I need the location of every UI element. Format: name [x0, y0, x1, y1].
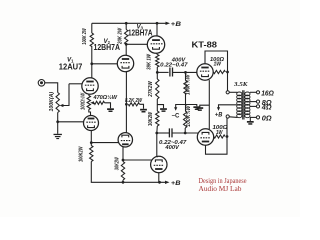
wire V1 grid	[69, 83, 82, 85]
triode V3 upper	[147, 36, 164, 53]
wire drive to C2	[157, 132, 169, 134]
svg-text:0.22~0.47: 0.22~0.47	[160, 62, 188, 68]
wire V2 cathode bus	[125, 72, 127, 133]
wire pot bottom	[57, 113, 59, 134]
node V2 lower plate / V3 lower grid	[122, 159, 125, 162]
terminal 4 ohm	[256, 105, 259, 108]
wire terminal to primary bottom	[229, 116, 237, 119]
svg-text:30K2W: 30K2W	[115, 156, 121, 170]
wire C2 to KT88-2 grid	[172, 132, 199, 134]
wire 30K to node lower	[156, 126, 159, 157]
wire V1 upper cathode	[88, 94, 90, 95]
wire 39K to node	[156, 67, 158, 79]
wire to V3 lower grid	[123, 159, 152, 161]
terminal 8 ohm	[256, 100, 259, 103]
resistor 30K 2W bottom	[121, 162, 124, 181]
resistor 27K 2W	[156, 79, 159, 99]
wire V3 plate	[156, 23, 158, 36]
wire V1 lower cathode	[90, 131, 92, 146]
node V2 plate / V3 grid	[125, 43, 128, 46]
node drive lower	[155, 132, 158, 135]
wire 470R to ground	[105, 103, 111, 109]
svg-text:+B: +B	[215, 113, 223, 119]
node drive upper	[156, 71, 159, 74]
svg-text:−C: −C	[172, 113, 181, 119]
ground 470R	[107, 108, 114, 110]
wire KT88-2 plate loop	[206, 118, 228, 154]
wire center tap	[219, 105, 237, 108]
capacitor C1 0.22-0.47 400V	[170, 68, 173, 77]
svg-text:KT-88: KT-88	[192, 39, 218, 49]
wire 27K to 30K	[156, 99, 158, 111]
wire secondary ground	[249, 117, 251, 121]
svg-text:30K2W: 30K2W	[148, 111, 154, 126]
ground secondary	[247, 121, 254, 123]
svg-text:12BH7A: 12BH7A	[94, 43, 121, 52]
svg-text:100K½W: 100K½W	[185, 105, 192, 127]
wire top +B rail	[92, 22, 167, 24]
input jack J1	[38, 80, 45, 87]
wire terminal to primary	[229, 91, 237, 93]
wire grid corner from pot wiper	[61, 84, 69, 106]
svg-text:16Ω: 16Ω	[261, 89, 274, 98]
ground 8.2K	[140, 109, 147, 111]
wire 8.2K to ground	[140, 104, 144, 109]
resistor 100K 2W plate V1	[90, 33, 93, 47]
svg-text:+B: +B	[171, 21, 181, 28]
resistor 39K 1W	[156, 55, 159, 68]
tube KT88 lower	[197, 129, 213, 145]
wire to V2 lower grid	[91, 142, 119, 144]
wire V1 plate to V2 grid	[92, 63, 118, 65]
wire bias node	[185, 94, 187, 112]
wire 20K to V2 plate	[125, 44, 127, 55]
svg-text:27K2W: 27K2W	[148, 80, 154, 97]
node plate/100R junction	[226, 71, 229, 74]
svg-text:1W: 1W	[216, 130, 223, 136]
svg-text:100K(A): 100K(A)	[49, 92, 55, 112]
arrow +B top	[166, 22, 171, 25]
arrowhead pot wiper	[60, 104, 64, 107]
node plate2/100R junction	[226, 135, 229, 138]
node V1 plate / V2 grid	[90, 62, 93, 65]
arrow +B bottom	[165, 181, 170, 184]
svg-text:470Ω½W: 470Ω½W	[93, 94, 118, 101]
wire grid node to 100K	[185, 72, 187, 80]
resistor 30K 2W mid	[156, 111, 159, 126]
ground bias	[193, 106, 200, 108]
resistor 100 ohm 1/2W cathode pot V1	[87, 96, 90, 110]
capacitor C2 0.22-0.47 400V	[169, 128, 172, 137]
wire tap 8	[250, 101, 256, 103]
svg-text:100K 2W: 100K 2W	[82, 28, 88, 45]
wire cathode gnd stub	[200, 105, 210, 107]
svg-text:8.2K 2W: 8.2K 2W	[125, 98, 143, 104]
transformer secondary winding	[245, 92, 250, 96]
svg-text:+B: +B	[171, 180, 181, 187]
wire V3 lower plate	[158, 173, 160, 183]
arrowhead +B center tap	[217, 107, 220, 111]
junction bottom rail / V3 lower plate	[158, 181, 161, 184]
ground KT88 cathodes	[196, 107, 203, 109]
svg-text:12AU7: 12AU7	[59, 62, 83, 72]
junction top rail / V3 plate	[156, 22, 159, 25]
wire bias gnd stub	[186, 105, 197, 107]
junction bottom rail / 30K	[122, 181, 125, 184]
ground pot	[54, 134, 62, 135]
wire KT88-1 plate loop	[205, 51, 228, 91]
resistor 470 ohm 1/2W	[94, 101, 105, 104]
tube KT88 upper	[197, 64, 213, 80]
wire V2 plate to V3 grid	[126, 43, 147, 45]
node KT88-1 grid R	[184, 71, 187, 74]
resistor 100K 1/2W lower	[184, 111, 187, 128]
node pot bottom / V1 lower grid	[56, 120, 59, 123]
wire KT88-1 cathode	[208, 80, 210, 129]
wire tail to bottom rail	[91, 162, 166, 183]
arrowhead cathode pot wiper	[90, 101, 94, 104]
svg-text:100K2W: 100K2W	[78, 146, 84, 162]
svg-text:1W: 1W	[214, 61, 222, 67]
resistor 8.2K 2W	[128, 103, 139, 106]
terminal 16 ohm	[256, 91, 259, 94]
svg-text:100K½W: 100K½W	[185, 74, 192, 95]
node V1 lower cathode / V2 lower grid	[90, 141, 93, 144]
resistor 100R 1W upper g2	[213, 70, 225, 73]
wire V2 lower plate	[122, 147, 124, 162]
terminal primary bottom	[226, 115, 229, 118]
arrowhead -C	[174, 107, 177, 111]
triode V2 lower	[118, 133, 132, 147]
wire 100K lower to grid wire	[184, 128, 186, 133]
resistor 100R 1W lower g2	[214, 135, 225, 138]
wire drive to C1	[157, 71, 168, 73]
wire tap 0	[250, 116, 256, 118]
triode V3 lower	[151, 156, 167, 172]
wire rail to 20K	[125, 23, 127, 29]
wire pot bottom to V1 lower plate	[89, 110, 91, 116]
wire -C feed	[176, 105, 186, 108]
wire center ground stub	[157, 105, 163, 109]
triode V2 upper	[117, 55, 133, 71]
terminal 0 ohm	[256, 116, 259, 119]
transformer primary winding	[237, 92, 242, 96]
wire plate V1 upper	[91, 46, 93, 78]
wire V1 lower grid	[58, 121, 84, 123]
wire tap 4	[250, 105, 256, 107]
wire V3 cathode	[156, 53, 159, 54]
transformer core	[243, 90, 244, 119]
wire jack to volume pot	[45, 83, 58, 93]
node KT88-2 grid R	[184, 132, 187, 135]
wire C1 to KT88 grid	[173, 71, 197, 73]
svg-text:12BH7A: 12BH7A	[128, 29, 153, 38]
node cathode bus 8.2K	[125, 103, 128, 106]
wire tap 16	[250, 91, 256, 93]
svg-text:39K 1W: 39K 1W	[147, 53, 153, 70]
resistor 20K 2W	[125, 30, 128, 45]
triode V1 upper	[82, 78, 98, 94]
potentiometer 100K(A)	[56, 93, 59, 113]
svg-text:Audio MJ Lab: Audio MJ Lab	[199, 184, 242, 193]
terminal primary top	[226, 91, 229, 94]
resistor 100K 2W tail	[90, 146, 93, 162]
svg-text:20K 2W: 20K 2W	[117, 27, 123, 45]
svg-text:400V: 400V	[164, 145, 180, 151]
svg-text:0Ω: 0Ω	[262, 114, 272, 123]
ground center chain	[160, 108, 167, 110]
wire rail to 100K	[91, 23, 93, 33]
svg-text:4Ω: 4Ω	[261, 103, 272, 112]
svg-text:100Ω½W: 100Ω½W	[79, 92, 86, 110]
junction top rail / 20K	[125, 22, 128, 25]
svg-text:3.5K: 3.5K	[233, 81, 248, 88]
resistor 100K 1/2W upper	[184, 81, 187, 94]
triode V1 lower	[84, 116, 99, 131]
wire 30K to rail	[122, 180, 124, 182]
